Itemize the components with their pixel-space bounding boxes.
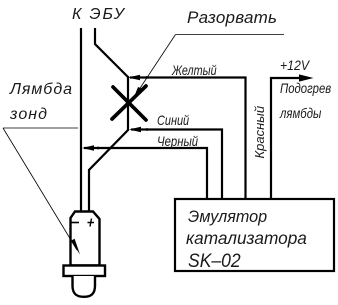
junction dot on yellow wire: [145, 76, 148, 79]
svg-text:Желтый: Желтый: [171, 63, 217, 78]
sensor flange: [64, 266, 106, 277]
sensor tip dome: [73, 276, 96, 297]
wire W8 sensor second wire: [89, 130, 129, 213]
wire W4 yellow wire: [130, 78, 246, 200]
svg-text:+12V: +12V: [280, 57, 310, 73]
leader arrowhead at sensor: [71, 239, 80, 255]
wire W5 blue wire: [131, 130, 222, 200]
svg-text:Подогрев: Подогрев: [280, 81, 332, 96]
X cut mark: [112, 86, 146, 120]
leader line Разорвать underline: [176, 34, 285, 36]
leader line Разорвать diagonal: [135, 35, 176, 97]
wire W6 black wire: [84, 148, 207, 199]
arrow +12V: [299, 74, 314, 81]
wire W1 signal wire to ECU: [80, 28, 82, 211]
svg-text:SK–02: SK–02: [188, 249, 241, 271]
emulator box U1: [175, 199, 334, 271]
arrow blue: [129, 127, 141, 133]
svg-text:зонд: зонд: [9, 106, 47, 123]
svg-text:Эмулятор: Эмулятор: [188, 207, 267, 226]
lambda sensor body: [71, 212, 100, 266]
wire W7 red wire +12V: [271, 78, 303, 199]
arrow black: [82, 145, 94, 151]
svg-text:Лямбда: Лямбда: [9, 81, 72, 98]
sensor minus mark: [71, 222, 79, 224]
svg-text:Красный: Красный: [252, 106, 267, 159]
junction dot on black wire: [97, 147, 100, 150]
svg-text:Синий: Синий: [157, 113, 189, 128]
svg-text:Черный: Черный: [157, 134, 198, 149]
svg-text:Разорвать: Разорвать: [187, 8, 277, 27]
junction dot on blue wire: [146, 128, 149, 131]
leader line Лямбда зонд underline: [3, 127, 78, 129]
svg-text:К ЭБУ: К ЭБУ: [72, 6, 126, 23]
arrow yellow: [128, 75, 140, 81]
wire W2 second wire to ECU: [95, 28, 128, 77]
svg-text:катализатора: катализатора: [186, 228, 307, 248]
wire W3 wire segment to be cut: [127, 76, 129, 130]
leader arrowhead at X: [133, 87, 142, 100]
svg-text:лямбды: лямбды: [279, 106, 321, 121]
leader line Лямбда зонд diagonal: [3, 128, 77, 250]
sensor plus mark: [88, 219, 95, 227]
